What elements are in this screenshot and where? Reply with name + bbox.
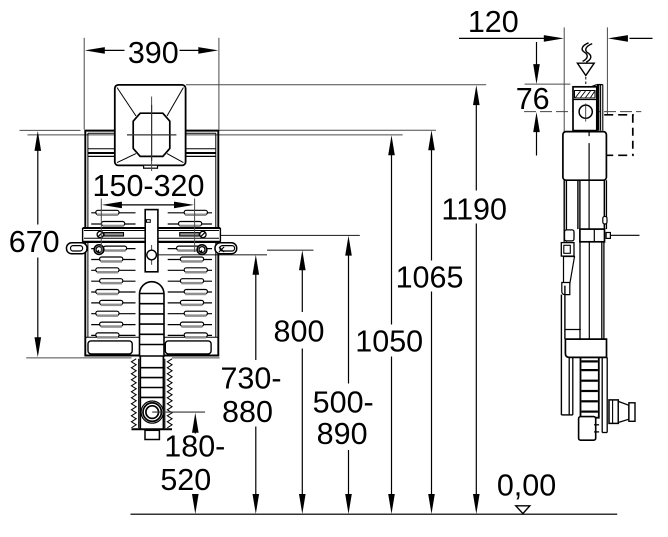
dimension 76: [516, 42, 571, 156]
side wall bracket: [561, 230, 574, 295]
svg-text:120: 120: [468, 5, 519, 39]
tank top reference line for 670: [20, 129, 81, 131]
screw reference line for 800: [267, 249, 314, 251]
side centerline through valve: [524, 111, 641, 113]
pivot reference line for 730-880: [157, 254, 267, 256]
side corrugated pipe: [581, 357, 599, 417]
svg-text:180-: 180-: [164, 430, 225, 464]
dimension 800: [274, 250, 325, 514]
rail slot left with screw: [97, 231, 123, 237]
svg-text:880: 880: [222, 395, 273, 429]
dimension 1050: [355, 135, 423, 514]
tank bottom reference line for 670: [26, 357, 219, 359]
right wall bracket tab: [215, 243, 237, 254]
dimension 670: [9, 131, 60, 357]
left foot pad: [88, 341, 132, 354]
centerline horizontal through flush plate: [28, 134, 403, 136]
plate bottom tab: [144, 165, 158, 168]
flush plate edge-on: [597, 85, 603, 131]
stud reference line for 500-890: [220, 234, 359, 236]
vent slot rows: [91, 210, 212, 338]
flush button opening: [133, 113, 170, 156]
right foot pad: [165, 341, 211, 354]
svg-text:76: 76: [516, 82, 550, 116]
mounting rail: [83, 228, 221, 242]
dimension 1190: [441, 85, 507, 514]
side foot box: [579, 417, 600, 441]
threaded sleeve with flush pipe: [131, 356, 172, 430]
dimension 180-520: [160, 413, 225, 514]
vertical centerline of plate: [151, 97, 153, 172]
side elbow box: [565, 339, 606, 357]
funnel symbol: [577, 63, 594, 86]
side left leg bottom: [561, 357, 572, 415]
cistern tank outline: [84, 131, 219, 356]
svg-text:150-320: 150-320: [93, 169, 205, 203]
left fixing screw: [94, 245, 104, 255]
crosshair in button: [127, 105, 176, 161]
svg-text:0,00: 0,00: [497, 469, 556, 503]
side stud block: [580, 229, 640, 242]
svg-text:520: 520: [160, 463, 211, 497]
side cistern body: [563, 132, 607, 181]
flush plate: [115, 85, 186, 165]
svg-text:730-: 730-: [220, 362, 281, 396]
dimension 150-320: [93, 169, 205, 252]
flush pipe arch: [140, 282, 165, 356]
dimension 390: [84, 36, 219, 130]
svg-text:1050: 1050: [355, 325, 423, 359]
side flush valve box: [573, 85, 597, 131]
steam squiggle symbol: [582, 43, 592, 62]
svg-text:800: 800: [274, 315, 325, 349]
svg-text:500-: 500-: [313, 386, 374, 420]
dimension 730-880: [220, 255, 281, 514]
dashed wall bracket zone: [604, 115, 634, 156]
rail slot right with screw: [180, 231, 206, 237]
tank top reference line for 1065: [219, 129, 436, 131]
outlet connection circle: [141, 401, 205, 423]
floor line: [131, 513, 618, 515]
right fixing screw: [197, 245, 207, 255]
left wall bracket tab: [67, 243, 88, 254]
central adjustment bar: [145, 210, 158, 272]
dimension 1065: [396, 130, 464, 514]
side clip: [603, 216, 607, 224]
dimension 120: [459, 5, 653, 132]
svg-text:1190: 1190: [441, 193, 507, 227]
svg-text:890: 890: [317, 417, 368, 451]
dimension 500-890: [313, 236, 374, 514]
svg-text:390: 390: [128, 36, 179, 70]
side outlet neck: [609, 400, 635, 424]
flush plate top reference line for 1190: [186, 84, 486, 86]
svg-text:1065: 1065: [396, 261, 464, 295]
side frame channel: [564, 180, 606, 242]
svg-text:670: 670: [9, 225, 60, 259]
zero level label: [497, 469, 556, 514]
leg foot: [145, 430, 159, 439]
side frame lower legs: [561, 242, 604, 415]
side valve circle: [579, 104, 592, 122]
side right leg: [602, 357, 607, 432]
